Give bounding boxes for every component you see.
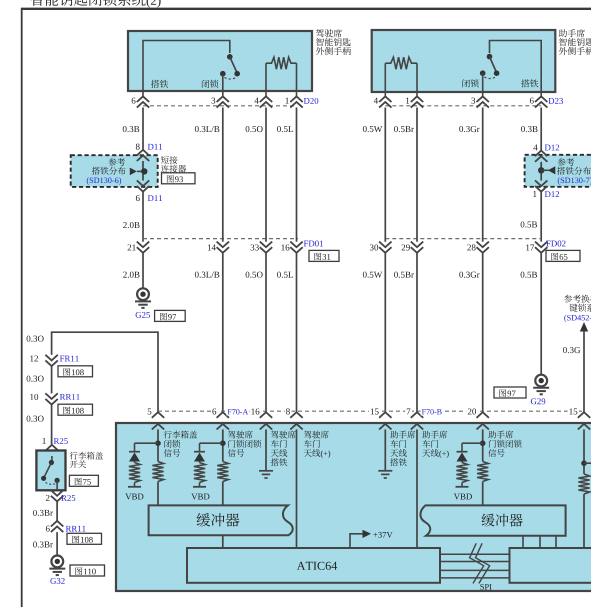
junction RR11 chevrons xyxy=(45,393,57,404)
jumper arrow triangle (right) xyxy=(548,166,556,174)
text 缓冲器 #1 xyxy=(197,513,240,527)
module connector dashed line xyxy=(158,410,584,412)
pin15r wire into box xyxy=(583,429,585,474)
module pin 15 chevrons xyxy=(578,412,590,418)
figure box 图97 (G25) xyxy=(155,310,186,321)
module pin number 7 xyxy=(405,407,412,416)
wire RR11-G32 xyxy=(56,532,58,555)
figure box 图65 xyxy=(546,250,580,261)
label 0.5O xyxy=(246,126,263,132)
ground pin16 xyxy=(259,470,273,472)
label 0.5B upper xyxy=(521,221,537,227)
pin number 1 D20 xyxy=(286,98,289,104)
junction FD02 pin 28 chevrons xyxy=(477,242,489,253)
trunk switch pivot dot xyxy=(49,460,54,465)
pin number 33 FD01 xyxy=(251,244,259,250)
junction RR11 bottom chevrons xyxy=(51,521,63,532)
SPI bus line 1 xyxy=(440,553,510,555)
left border line xyxy=(21,8,23,607)
switch SW2 travel arc xyxy=(484,77,495,79)
connector D23 dashed line xyxy=(385,105,541,107)
connector label D12 upper xyxy=(545,145,559,151)
wire contact to pin 3 xyxy=(222,74,224,91)
connector D20 pin 3 chevrons xyxy=(217,96,229,107)
wire x222.8 seg1 xyxy=(222,108,224,242)
wire x266 seg2 xyxy=(265,253,267,412)
connector D23 pin 4 chevrons xyxy=(379,96,391,107)
connector label F70-A xyxy=(226,407,248,416)
jumper node dot xyxy=(141,168,147,174)
connector D20 pin 6 chevrons xyxy=(137,96,149,107)
wire w8 seg1 xyxy=(540,108,542,151)
pin number 1 D12 xyxy=(533,191,536,197)
connector label R25 lower xyxy=(61,495,75,501)
ground G25 xyxy=(137,288,149,300)
pin6 wire into box xyxy=(222,429,224,461)
module pin 5 chevrons xyxy=(152,412,164,418)
text 键锁系统 xyxy=(569,304,591,312)
text (SD130-7) xyxy=(558,177,591,184)
label 驾驶席智能钥匙外侧手柄 xyxy=(316,29,342,37)
trunk switch wire in xyxy=(51,456,53,463)
label 搭铁 (pin6) xyxy=(151,80,168,88)
module pin number 8 xyxy=(285,407,292,416)
pin15r junction dot xyxy=(581,460,587,466)
text 缓冲器 #2 xyxy=(482,514,523,527)
resistor R-handle-L right leg xyxy=(296,63,298,91)
label 0.3O #2 xyxy=(27,376,44,382)
pin number 3 D20 xyxy=(212,98,216,104)
label 助手席智能钥匙外侧手柄 xyxy=(559,29,585,37)
connector label D11 lower xyxy=(148,195,162,201)
figure box 图108 (RR11 bottom) xyxy=(67,533,102,544)
SPI bus line 3 xyxy=(440,569,510,571)
label 0.5B lower xyxy=(521,272,537,278)
SPI bus break symbol xyxy=(470,543,490,583)
text 参考 (SD130-7) xyxy=(558,158,575,166)
label 0.3Br #1 xyxy=(33,510,53,516)
IC U1 ATIC64 box xyxy=(187,548,440,583)
label 0.5W lower xyxy=(363,272,382,278)
resistor R-handle-R body xyxy=(385,57,417,69)
label 0.5W upper xyxy=(363,126,382,132)
label 0.3O #3 xyxy=(27,416,44,422)
pin number 6 D11 xyxy=(136,195,140,201)
module pin number 6 xyxy=(211,407,218,416)
branch wire horizontal xyxy=(52,332,158,412)
pin15r wire to IC2 xyxy=(583,494,585,549)
pin number 1 D23 xyxy=(406,98,409,104)
pin number 21 FD01 xyxy=(128,244,136,250)
module pin 20 chevrons xyxy=(477,412,489,418)
module pin number 15 xyxy=(369,407,380,416)
ground label G29 xyxy=(531,398,545,404)
ground label G32 xyxy=(50,578,64,584)
trunk switch contact dot xyxy=(55,478,60,483)
label VBD #1 xyxy=(125,494,143,500)
jumper arrow link xyxy=(137,170,144,172)
figure box 图110 xyxy=(70,565,105,576)
wire w8 through SD box xyxy=(540,162,542,181)
wire R25-RR11 xyxy=(56,501,58,521)
wire w1 seg2 xyxy=(142,192,144,242)
module pin 15 chevrons xyxy=(379,412,391,418)
trunk switch blade tip dot xyxy=(41,476,46,481)
pin caption at x227.5 xyxy=(228,431,253,439)
pin number 10 RR11 xyxy=(30,394,38,400)
wire stub pin 4 D23 xyxy=(384,92,386,97)
pin number 4 D12 xyxy=(533,144,537,150)
buffer2 stub 3 xyxy=(555,536,557,549)
text (SD130-6) xyxy=(87,177,121,184)
wire contact to pin 3 (right) xyxy=(482,73,484,92)
label 0.3G xyxy=(563,347,580,353)
label 0.5L xyxy=(277,126,293,132)
pin5 junction dot xyxy=(155,440,161,446)
label 0.3Gr upper xyxy=(459,126,479,132)
label +37V xyxy=(373,532,392,538)
resistor R-handle-R right leg xyxy=(416,63,418,92)
resistor pin5 xyxy=(152,462,163,482)
connector R25 lower chevrons xyxy=(51,490,63,501)
jumper node dot (right) xyxy=(538,167,544,173)
ground pin15 xyxy=(378,470,392,472)
figure box 图93 xyxy=(162,173,196,184)
module pin number 20 xyxy=(466,407,477,416)
IC U2 box xyxy=(510,548,591,583)
connector label R25 upper xyxy=(54,438,68,444)
wire w1 seg3 xyxy=(142,253,144,288)
trunk switch wire out xyxy=(56,480,58,490)
figure box 图108 (FR11) xyxy=(58,366,93,377)
wire w1 through SD box xyxy=(142,161,144,181)
switch SW2 blade xyxy=(490,57,497,73)
pin number 12 FR11 xyxy=(30,355,38,361)
switch SW1 travel arc xyxy=(225,78,236,80)
label 0.3Br #2 xyxy=(33,541,53,547)
text 连接器 xyxy=(161,165,186,173)
wire 0.3G xyxy=(583,330,585,412)
resistor pin20 xyxy=(477,462,488,482)
pin caption at x303.5 xyxy=(304,431,329,439)
ground label G25 xyxy=(136,312,150,318)
wire w8 seg2 xyxy=(540,192,542,242)
pin number 2 R25 xyxy=(46,495,50,501)
module pin number 15 xyxy=(568,407,579,416)
pin number 1 R25 xyxy=(43,438,46,444)
wire x266 seg1 xyxy=(265,108,267,242)
wire x482.7 seg1 xyxy=(482,108,484,242)
pin5 branch wire xyxy=(135,442,159,444)
resistor R-handle-L left leg xyxy=(265,63,267,91)
text 行李箱盖 (switch) xyxy=(70,452,103,460)
connector D23 pin 1 chevrons xyxy=(411,96,423,107)
connector D12 upper chevrons xyxy=(535,151,547,162)
junction label RR11 xyxy=(60,394,80,400)
pin20 wire into box xyxy=(482,429,484,461)
+37V arrow xyxy=(363,530,372,538)
connector R25 upper chevrons xyxy=(46,445,58,456)
junction label FD02 xyxy=(546,241,565,247)
pin number 8 D11 xyxy=(136,144,140,150)
passenger smart key outside handle box xyxy=(372,30,556,92)
wire x417 seg1 xyxy=(416,108,418,242)
resistor R-handle-R left leg xyxy=(384,63,386,92)
label 0.3L/B lower xyxy=(195,272,219,278)
label 0.3O #1 xyxy=(27,336,44,342)
switch SW2 blade tip dot xyxy=(494,70,500,76)
ground G29 xyxy=(535,375,547,387)
pin20 wire to buffer2 xyxy=(482,482,484,506)
label 闭锁 (right box) xyxy=(462,79,478,87)
wire w1 seg1 xyxy=(142,108,144,150)
pin15r branch wire xyxy=(584,462,591,464)
jumper arrow link (right) xyxy=(541,169,548,171)
junction label FD01 xyxy=(304,241,323,247)
buffer2 stub 1 xyxy=(522,536,524,549)
connector label D23 xyxy=(548,98,563,104)
label 2.0B lower xyxy=(123,272,139,278)
module pin number 16 xyxy=(250,407,261,416)
+37V supply wire xyxy=(350,534,363,549)
label 0.5O lower xyxy=(246,272,263,278)
wire stub pin 6 D20 xyxy=(142,91,144,97)
label 0.5Br lower xyxy=(394,272,414,278)
connector D20 dashed line xyxy=(143,105,297,107)
buffer box 1 缓冲器 xyxy=(149,505,293,535)
label VBD #2 xyxy=(191,494,209,500)
pin5 wire into box xyxy=(157,429,159,461)
jumper arrow triangle xyxy=(130,168,137,176)
figure box 图75 xyxy=(69,475,98,486)
connector label F70-B xyxy=(421,407,443,416)
text 参考 (SD130-6) xyxy=(108,158,125,166)
text 参考换档 xyxy=(564,295,591,303)
switch SW1 contact dot xyxy=(220,71,226,77)
resistor pin6 xyxy=(217,462,228,482)
pin number 4 D23 xyxy=(374,98,378,104)
label 闭锁 (pin3) xyxy=(202,80,218,88)
module pin 16 chevrons xyxy=(260,412,272,418)
wire x222.8 seg2 xyxy=(222,253,224,412)
connector D20 pin 4 chevrons xyxy=(260,96,272,107)
pin number 16 FD01 xyxy=(281,244,289,250)
junction label RR11 bottom xyxy=(66,526,86,532)
trunk switch travel arc xyxy=(46,483,56,485)
module pin 8 chevrons xyxy=(290,412,302,418)
wire x482.7 seg2 xyxy=(482,253,484,412)
connector D20 pin 1 chevrons xyxy=(290,96,302,107)
junction FD02 dashed line xyxy=(385,238,541,240)
junction FD02 pin 29 chevrons xyxy=(411,242,423,253)
text 开关 (switch) xyxy=(70,460,86,468)
wire stub pin 3 D23 xyxy=(482,92,484,97)
switch SW1 blade tip dot xyxy=(234,71,240,77)
junction FD01 pin 33 chevrons xyxy=(260,242,272,253)
pin caption at x163.5 xyxy=(164,431,197,439)
top border line xyxy=(21,8,591,10)
junction FD01 pin 21 chevrons xyxy=(137,242,149,253)
module pin 7 chevrons xyxy=(411,412,423,418)
wire w8 seg3 xyxy=(540,253,542,374)
pin5 wire to buffer xyxy=(157,482,159,507)
junction FD02 pin 17 chevrons xyxy=(535,242,547,253)
diode D-VBD3 with resistor xyxy=(461,443,463,452)
pin number 14 FD01 xyxy=(208,244,216,250)
arrow up to reference xyxy=(580,322,588,332)
label SPI xyxy=(480,584,491,590)
reference box 搭铁分布 SD130-7 xyxy=(525,155,591,187)
text 短接 xyxy=(161,156,178,164)
smart key control module box xyxy=(116,423,591,591)
pin number 6 D20 xyxy=(132,98,136,104)
pin8 wire to ATIC64 xyxy=(296,429,298,549)
connector label D11 upper xyxy=(148,144,162,150)
connector D12 lower chevrons xyxy=(535,180,547,191)
label 0.3B xyxy=(123,126,139,132)
connector label D20 xyxy=(304,98,319,104)
pin number 6 D23 xyxy=(530,98,534,104)
label 0.3Gr lower xyxy=(459,272,479,278)
connector label D12 lower xyxy=(545,191,559,197)
connector D11 lower chevrons xyxy=(137,180,149,191)
junction FD01 pin 16 chevrons xyxy=(290,242,302,253)
resistor pin15r xyxy=(578,474,589,494)
wire x417 seg2 xyxy=(416,253,418,412)
label 搭铁 (right box) xyxy=(521,79,538,87)
pin caption at x422 xyxy=(422,431,447,439)
pin number 17 FD02 xyxy=(526,244,534,250)
internal wire to switch (right) xyxy=(490,41,542,93)
internal wire to switch xyxy=(143,41,230,92)
pin7 wire to ATIC64 xyxy=(416,429,418,549)
switch SW2 pivot dot xyxy=(487,54,493,60)
connector D11 upper chevrons xyxy=(137,150,149,161)
wire stub pin 3 D20 xyxy=(222,91,224,97)
wire stub pin 4 D20 xyxy=(265,91,267,97)
pin15 wire into box xyxy=(384,429,386,470)
pin number 4 D20 xyxy=(254,98,258,104)
module pin number 5 xyxy=(146,407,153,416)
pin caption at x390 xyxy=(390,431,415,439)
connector D23 pin 6 chevrons xyxy=(535,96,547,107)
pin20 branch wire xyxy=(462,442,483,444)
buffer2 stub 2 xyxy=(539,536,541,549)
pin caption at x270.5 xyxy=(271,431,296,439)
label 0.5Br upper xyxy=(394,126,414,132)
wire stub pin 1 D23 xyxy=(416,92,418,97)
resistor R-handle-L body xyxy=(266,57,297,69)
wire stub pin 1 D20 xyxy=(296,91,298,97)
pin16 wire into box xyxy=(265,429,267,470)
text (SD452-2) xyxy=(564,315,591,322)
wire x385.3 seg1 xyxy=(384,108,386,242)
buffer box 2 缓冲器 xyxy=(420,505,565,535)
title text (clipped at top) xyxy=(31,0,146,6)
label ATIC64 xyxy=(297,562,337,570)
junction FD01 dashed line xyxy=(143,238,298,240)
text 搭铁分布 (SD130-7) xyxy=(557,167,591,175)
SPI bus line 2 xyxy=(440,561,510,563)
pin number 30 FD02 xyxy=(370,244,378,250)
SPI bus line 4 xyxy=(440,577,510,579)
pin number 3 D23 xyxy=(471,98,475,104)
switch SW2 contact dot xyxy=(480,70,486,76)
diode D-VBD2 with resistor xyxy=(199,443,201,452)
junction FR11 chevrons xyxy=(45,355,57,366)
junction FD02 pin 30 chevrons xyxy=(379,242,391,253)
diode D-VBD1 with resistor xyxy=(134,443,136,452)
pin caption at x488 xyxy=(488,431,513,439)
pin20 junction dot xyxy=(480,440,486,446)
label 0.3L/B xyxy=(195,126,219,132)
connector D23 pin 3 chevrons xyxy=(477,96,489,107)
wire x385.3 seg2 xyxy=(384,253,386,412)
pin number 6 RR11 xyxy=(46,526,50,532)
label VBD #3 xyxy=(454,494,472,500)
trunk switch blade xyxy=(44,463,52,478)
wire FR11-RR11 xyxy=(51,366,53,393)
trunk lid switch box xyxy=(36,451,65,491)
pin6 wire to buffer xyxy=(222,482,224,507)
pin6 branch wire xyxy=(200,442,223,444)
wire x296.5 seg2 xyxy=(296,253,298,412)
figure box 图31 xyxy=(309,250,339,261)
driver smart key outside handle box xyxy=(128,31,312,91)
wire stub pin 6 D23 xyxy=(540,92,542,97)
switch SW1 blade xyxy=(230,57,237,73)
switch SW1 pivot dot xyxy=(227,54,233,60)
pin number 29 FD02 xyxy=(402,244,410,250)
module pin 6 chevrons xyxy=(217,412,229,418)
wire x296.5 seg1 xyxy=(296,108,298,242)
junction label FR11 xyxy=(60,356,79,362)
ground G32 xyxy=(51,556,63,568)
label 0.3B right xyxy=(521,126,537,132)
junction FD01 pin 14 chevrons xyxy=(217,242,229,253)
figure box 图108 (RR11) xyxy=(58,404,93,415)
pin6 junction dot xyxy=(220,440,226,446)
label 0.5L lower xyxy=(277,272,293,278)
text 搭铁分布 (SD130-6) xyxy=(92,167,126,175)
label 2.0B upper xyxy=(123,222,139,228)
wire RR11-R25 xyxy=(51,405,53,445)
buffer1 to ATIC64 wire xyxy=(222,535,224,549)
reference box 搭铁分布 SD130-6 xyxy=(71,155,158,187)
pin number 28 FD02 xyxy=(467,244,475,250)
figure box 图97 (G29) xyxy=(494,387,526,398)
